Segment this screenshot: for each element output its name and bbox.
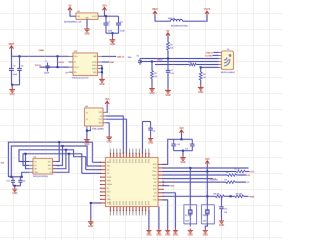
ground (Y2) xyxy=(203,229,208,237)
wire (bottom pin gnd 2) xyxy=(158,207,160,229)
crystal Y1 xyxy=(184,205,197,227)
label BLM18SG121TN1D xyxy=(171,26,188,28)
wire (usb D- line) xyxy=(140,61,219,63)
flash U5 xyxy=(29,157,56,174)
net label 3V3 (flash) xyxy=(1,163,6,165)
label TP4054 xyxy=(72,77,90,79)
node xyxy=(101,71,103,73)
net label VCONN xyxy=(205,55,213,57)
label (rotated value) xyxy=(163,179,165,185)
capacitor C7 xyxy=(166,59,174,76)
power port 3V3 (regulator output) xyxy=(102,4,107,10)
wire (osc bottom pins) xyxy=(87,129,91,138)
node xyxy=(86,130,88,132)
resistor R5 xyxy=(235,169,246,173)
wire xyxy=(102,61,110,63)
wire (flash CLK up) xyxy=(53,149,67,169)
ground (reg caps) xyxy=(110,38,116,47)
wire (flash DI up) xyxy=(53,153,70,173)
node: reg output junction xyxy=(105,15,107,17)
node xyxy=(167,58,169,60)
wire xyxy=(13,185,20,187)
wire xyxy=(214,51,219,53)
regulator U2 xyxy=(76,11,98,19)
wire (TXD0 row) xyxy=(163,171,236,173)
wire xyxy=(11,85,13,88)
ground (C7) xyxy=(165,88,171,97)
wire xyxy=(181,133,183,139)
wire xyxy=(12,84,20,86)
wire xyxy=(196,64,218,66)
wire xyxy=(40,66,69,68)
wire xyxy=(98,15,119,17)
label W25Q32 xyxy=(33,176,48,178)
wire xyxy=(167,50,169,58)
capacitor C14 xyxy=(18,177,25,186)
wire (run3) xyxy=(19,150,86,170)
resistor R4 xyxy=(199,72,206,80)
power port VSYS (right of FB1) xyxy=(204,8,211,14)
node: C4 top xyxy=(19,55,21,57)
wire xyxy=(106,32,119,34)
capacitor C3 xyxy=(9,56,18,85)
wire xyxy=(236,174,246,176)
resistor R8 xyxy=(214,194,225,198)
wire (bottom pin gnd 1) xyxy=(148,211,150,229)
ground xyxy=(146,229,151,237)
wire (osc gnd) xyxy=(106,123,109,135)
power port 3V3 (filter) xyxy=(179,127,184,133)
node: cap gnd rail xyxy=(112,32,114,34)
wire xyxy=(155,15,171,22)
wire (xtal1 drop) xyxy=(189,168,191,205)
ground (charger) xyxy=(99,77,105,86)
wire xyxy=(167,36,169,42)
capacitor C1 xyxy=(104,16,113,33)
power port 3V3 (osc) xyxy=(105,98,110,104)
net label SENSOR xyxy=(170,186,175,188)
ground (osc case) xyxy=(84,137,90,146)
wire (IO21 row) xyxy=(163,178,213,180)
wire xyxy=(183,15,208,22)
wire xyxy=(105,105,108,113)
ground (C9) xyxy=(148,137,153,145)
wire (filter top rail) xyxy=(174,138,193,140)
wire (osc OUT) xyxy=(106,119,126,153)
node xyxy=(151,61,153,63)
net label CHRG xyxy=(58,62,64,64)
net label CE xyxy=(65,72,68,74)
ground (osc gnd pin) xyxy=(106,135,112,144)
wire (flash cap rail) xyxy=(8,176,22,178)
wire xyxy=(245,171,249,173)
node: prog junction xyxy=(57,66,59,68)
power port 3V3 (pullup) xyxy=(205,158,210,164)
wire (run4) xyxy=(23,154,82,174)
wire (left pin gnd) xyxy=(90,202,101,220)
power port VBAT (charger rail) xyxy=(8,43,15,49)
net label SD (flash) xyxy=(57,165,60,167)
net label BAT xyxy=(110,61,115,64)
net label USB-5V (J1) xyxy=(206,52,214,54)
resistor R6 xyxy=(226,172,236,176)
ground (flash caps) xyxy=(12,187,17,195)
node xyxy=(101,68,103,70)
wire (osc OE) xyxy=(106,116,123,153)
wire (run1) xyxy=(8,142,92,177)
ground xyxy=(173,229,178,237)
wire xyxy=(182,151,184,156)
net label 5V (IO21) xyxy=(214,179,217,181)
capacitor C13 xyxy=(6,177,15,186)
ground xyxy=(165,229,170,237)
capacitor C11 xyxy=(185,139,195,150)
wire (sensor pin) xyxy=(163,185,170,187)
label SPX3819M5-L-3-3 xyxy=(64,22,82,24)
capacitor C10 xyxy=(171,139,179,150)
capacitor C6 (vbus filter) xyxy=(128,56,143,65)
oscillator U4 xyxy=(85,106,107,129)
capacitor C9 xyxy=(148,122,155,137)
wire xyxy=(213,54,219,56)
capacitor C12 xyxy=(219,196,228,214)
ground (R2) xyxy=(149,86,155,95)
node xyxy=(200,66,202,68)
resistor R7 xyxy=(225,179,235,183)
wire xyxy=(244,195,249,197)
capacitor C5 xyxy=(44,61,50,75)
wire (RXD0 row) xyxy=(163,174,228,176)
charger U3 xyxy=(69,51,103,76)
wire (IO19 row) xyxy=(163,181,226,183)
wire (gnd tie) xyxy=(101,65,103,77)
wire xyxy=(205,224,207,229)
net label USB-5V xyxy=(117,56,125,58)
wire xyxy=(70,11,76,16)
net label VBAT (divider) xyxy=(249,195,255,198)
wire (flash routes into left pins) xyxy=(82,162,101,173)
resistor R2 xyxy=(151,71,158,79)
wire (usb gnd line) xyxy=(201,66,219,68)
ground xyxy=(156,229,161,237)
wire (gnd pin drop 1) xyxy=(163,200,168,229)
ground (filter) xyxy=(180,155,186,164)
wire xyxy=(151,79,153,87)
wire xyxy=(206,164,208,171)
wire xyxy=(14,186,16,187)
wire (gnd pin drop 2) xyxy=(163,193,175,229)
wire xyxy=(200,67,202,72)
wire (flash pwr pin) xyxy=(22,172,30,177)
wire (filter bottom rail) xyxy=(174,150,193,152)
net label LED xyxy=(250,172,255,174)
net label PROG xyxy=(35,65,42,67)
wire xyxy=(57,56,59,67)
wire xyxy=(104,11,106,16)
net label TX xyxy=(247,182,250,184)
microcontroller U1 xyxy=(100,149,164,216)
wire (flash VCC up) xyxy=(53,141,61,161)
label MICRO-USB xyxy=(221,72,235,74)
power port 5V (regulator input) xyxy=(68,4,72,10)
wire xyxy=(112,33,114,37)
wire xyxy=(167,74,169,88)
label 2.2uF/25V xyxy=(210,180,219,182)
ground (C12) xyxy=(219,219,224,227)
usb connector J1 xyxy=(219,49,234,69)
label 40MHz xyxy=(92,128,104,131)
wire (flash HLD up) xyxy=(53,145,64,165)
crystal Y2 xyxy=(202,205,215,227)
resistor R9 xyxy=(235,194,244,198)
wire (vdd branch) xyxy=(143,122,151,154)
wire xyxy=(102,55,116,57)
capacitor C4 xyxy=(17,56,23,85)
resistor R3 (series) xyxy=(188,62,196,66)
wire xyxy=(12,49,69,56)
ground (regulator) xyxy=(84,27,90,36)
wire (run2) xyxy=(11,146,87,177)
wire (3V3 pin to filter) xyxy=(163,139,174,164)
wire (IO22 row) xyxy=(163,167,249,169)
ground (U1 left) xyxy=(88,220,94,229)
power port 5V (usb pullup) xyxy=(166,30,170,36)
ground (R4) xyxy=(198,85,204,94)
ferrite bead FB1 xyxy=(168,17,183,21)
wire xyxy=(151,62,153,71)
power port VBAT (left of FB1) xyxy=(152,8,159,14)
wire (usb D+ line) xyxy=(140,58,219,60)
wire xyxy=(224,195,235,197)
node: prog tap xyxy=(57,55,59,57)
wire xyxy=(200,80,202,85)
wire (xtal2 drop) xyxy=(206,172,208,205)
resistor R1 xyxy=(167,42,174,50)
wire (usb ID line) xyxy=(155,64,189,66)
ground (Y1) xyxy=(188,229,193,237)
ground (charger caps) xyxy=(9,87,15,96)
net label RX xyxy=(247,175,250,177)
net label VBAT xyxy=(39,49,45,52)
net label VBUS xyxy=(157,60,163,62)
wire (VBAT sense row) xyxy=(163,195,216,197)
capacitor C2 xyxy=(116,16,125,33)
wire xyxy=(235,181,246,183)
wire xyxy=(221,214,223,219)
wire xyxy=(86,19,88,27)
wire (flash WP up) xyxy=(25,153,30,169)
node: charger cap gnd xyxy=(11,84,13,86)
